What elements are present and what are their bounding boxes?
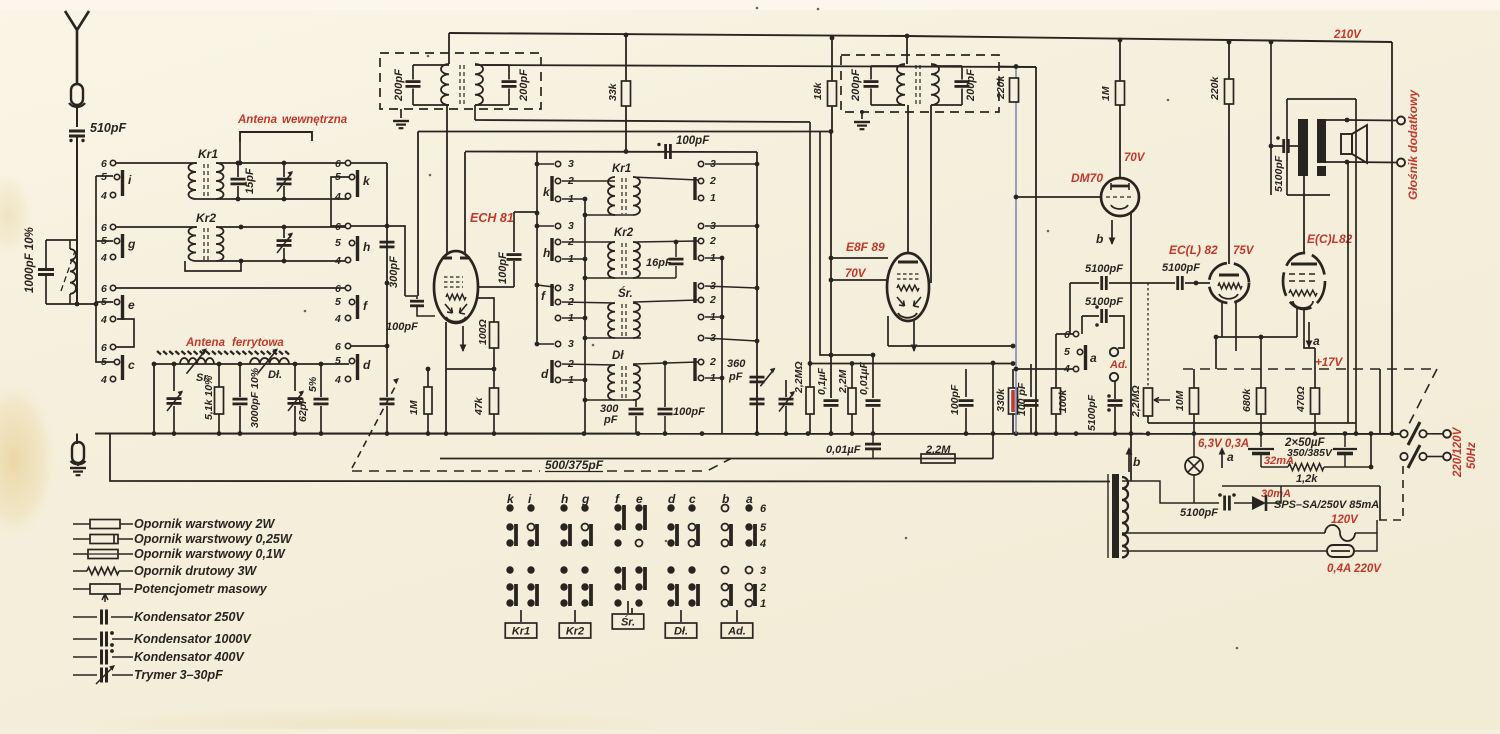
svg-text:1,2k: 1,2k: [1296, 473, 1318, 485]
svg-text:4: 4: [100, 252, 107, 264]
svg-text:Śr.: Śr.: [621, 616, 635, 629]
svg-text:15pF: 15pF: [244, 168, 256, 194]
svg-text:2: 2: [759, 582, 766, 594]
svg-text:Kondensator 250V: Kondensator 250V: [134, 610, 245, 624]
svg-text:100Ω: 100Ω: [477, 319, 489, 345]
svg-text:Śr.: Śr.: [618, 287, 633, 300]
svg-text:3: 3: [568, 220, 574, 232]
svg-text:5: 5: [101, 171, 107, 183]
svg-text:Trymer 3–30pF: Trymer 3–30pF: [134, 668, 223, 682]
svg-text:70V: 70V: [845, 268, 867, 280]
svg-text:h: h: [561, 492, 568, 506]
svg-text:Antena: Antena: [185, 337, 226, 349]
svg-text:5100pF: 5100pF: [1162, 262, 1200, 274]
svg-text:4: 4: [334, 191, 341, 203]
svg-text:SPS–SA/250V 85mA: SPS–SA/250V 85mA: [1274, 499, 1379, 511]
svg-text:b: b: [1133, 455, 1140, 469]
svg-text:100pF: 100pF: [949, 384, 961, 415]
svg-text:1M: 1M: [408, 400, 420, 415]
svg-text:g: g: [581, 492, 590, 506]
svg-text:Opornik warstwowy 2W: Opornik warstwowy 2W: [134, 517, 276, 531]
svg-text:ferrytowa: ferrytowa: [232, 337, 284, 349]
svg-text:Opornik warstwowy 0,1W: Opornik warstwowy 0,1W: [134, 547, 286, 561]
svg-text:4: 4: [334, 255, 341, 267]
svg-text:2: 2: [709, 356, 716, 368]
svg-text:75V: 75V: [1233, 245, 1255, 257]
svg-text:Antena: Antena: [237, 114, 278, 126]
svg-text:0,1µF: 0,1µF: [816, 367, 828, 395]
svg-text:2,2MΩ: 2,2MΩ: [1130, 385, 1142, 418]
svg-text:1000pF 10%: 1000pF 10%: [24, 227, 36, 293]
svg-text:4: 4: [759, 538, 766, 550]
svg-text:210V: 210V: [1333, 29, 1362, 41]
svg-text:E(C)L82: E(C)L82: [1307, 232, 1353, 246]
svg-text:220k: 220k: [1209, 75, 1221, 101]
svg-text:ECH 81: ECH 81: [470, 211, 514, 225]
svg-text:6: 6: [101, 342, 107, 354]
svg-text:1M: 1M: [1100, 86, 1112, 101]
svg-text:4: 4: [334, 313, 341, 325]
svg-text:100 pF: 100 pF: [1016, 382, 1028, 416]
svg-text:0,01µF: 0,01µF: [858, 362, 870, 395]
svg-text:a: a: [1313, 334, 1320, 348]
svg-text:+17V: +17V: [1315, 357, 1344, 369]
svg-text:4: 4: [334, 374, 341, 386]
svg-text:6: 6: [335, 221, 341, 233]
svg-text:h: h: [363, 240, 370, 254]
svg-text:16pF: 16pF: [646, 257, 672, 269]
svg-text:680k: 680k: [1241, 387, 1253, 412]
svg-text:3: 3: [568, 338, 574, 350]
svg-text:3: 3: [568, 158, 574, 170]
svg-text:3: 3: [568, 282, 574, 294]
svg-text:33k: 33k: [607, 82, 619, 101]
svg-text:4: 4: [100, 190, 107, 202]
svg-text:3: 3: [760, 565, 766, 577]
svg-text:EC(L) 82: EC(L) 82: [1169, 243, 1218, 257]
svg-text:5%: 5%: [307, 376, 319, 392]
svg-text:50Hz: 50Hz: [1466, 442, 1478, 469]
svg-text:Kr1: Kr1: [512, 626, 530, 638]
svg-text:200pF: 200pF: [518, 69, 530, 102]
svg-text:wewnętrzna: wewnętrzna: [282, 114, 348, 126]
svg-text:b: b: [1096, 232, 1103, 246]
svg-text:2: 2: [709, 175, 716, 187]
svg-text:Ad.: Ad.: [727, 626, 746, 638]
svg-text:Kr1: Kr1: [198, 147, 218, 161]
svg-text:5: 5: [335, 296, 341, 308]
svg-text:6: 6: [335, 283, 341, 295]
svg-text:470Ω: 470Ω: [1295, 386, 1307, 413]
svg-text:220/120V: 220/120V: [1452, 426, 1464, 478]
svg-text:300pF: 300pF: [388, 256, 400, 288]
svg-text:6: 6: [101, 283, 107, 295]
svg-text:e: e: [636, 492, 643, 506]
svg-text:5: 5: [1064, 346, 1070, 358]
svg-text:5100pF: 5100pF: [1085, 296, 1123, 308]
svg-text:62pF: 62pF: [297, 397, 309, 422]
svg-text:Ad.: Ad.: [1109, 359, 1128, 371]
svg-text:pF: pF: [603, 414, 618, 426]
svg-text:6: 6: [1064, 329, 1070, 341]
svg-text:200pF: 200pF: [850, 69, 862, 102]
svg-text:6: 6: [335, 341, 341, 353]
svg-text:Potencjometr masowy: Potencjometr masowy: [134, 582, 268, 596]
svg-text:d: d: [668, 492, 676, 506]
svg-text:Kondensator 1000V: Kondensator 1000V: [134, 632, 252, 646]
svg-text:2,2MΩ: 2,2MΩ: [793, 361, 805, 394]
svg-text:pF: pF: [728, 371, 743, 383]
svg-text:330k: 330k: [995, 387, 1007, 412]
svg-text:4: 4: [1063, 363, 1070, 375]
svg-text:4: 4: [100, 374, 107, 386]
svg-text:5100pF: 5100pF: [1273, 155, 1285, 192]
svg-text:c: c: [689, 492, 696, 506]
svg-text:100k: 100k: [1057, 388, 1069, 413]
svg-text:5: 5: [335, 237, 341, 249]
svg-text:5100pF: 5100pF: [1086, 394, 1098, 431]
svg-text:6: 6: [101, 158, 107, 170]
svg-text:5100pF: 5100pF: [1180, 507, 1218, 519]
svg-text:6: 6: [335, 158, 341, 170]
svg-text:18k: 18k: [812, 81, 824, 100]
svg-text:Kr2: Kr2: [566, 626, 584, 638]
svg-text:1: 1: [710, 192, 716, 204]
svg-text:g: g: [127, 237, 136, 251]
svg-text:360: 360: [727, 358, 746, 370]
svg-text:100pF: 100pF: [676, 135, 710, 147]
svg-text:a: a: [746, 492, 753, 506]
svg-text:6: 6: [101, 222, 107, 234]
svg-text:c: c: [128, 358, 135, 372]
svg-text:0,01µF: 0,01µF: [826, 444, 861, 456]
svg-text:100pF: 100pF: [497, 252, 509, 284]
svg-text:500/375pF: 500/375pF: [545, 458, 604, 472]
svg-text:Głośnik dodatkowy: Głośnik dodatkowy: [1406, 89, 1420, 200]
svg-text:Kr2: Kr2: [614, 227, 634, 239]
svg-text:Kr1: Kr1: [612, 163, 631, 175]
svg-text:2: 2: [709, 235, 716, 247]
svg-text:4: 4: [100, 314, 107, 326]
svg-text:E8F 89: E8F 89: [846, 240, 885, 254]
svg-text:d: d: [363, 358, 371, 372]
svg-text:10M: 10M: [1174, 390, 1186, 411]
svg-text:5100pF: 5100pF: [1085, 263, 1123, 275]
svg-text:70V: 70V: [1124, 152, 1146, 164]
svg-text:510pF: 510pF: [90, 121, 126, 135]
svg-text:d: d: [541, 367, 549, 381]
svg-text:0,4A 220V: 0,4A 220V: [1327, 563, 1382, 575]
svg-text:200pF: 200pF: [393, 69, 405, 102]
svg-text:100pF: 100pF: [386, 321, 418, 333]
svg-text:5: 5: [335, 355, 341, 367]
svg-text:5,1k 10%: 5,1k 10%: [203, 375, 215, 420]
svg-text:6,3V 0,3A: 6,3V 0,3A: [1198, 438, 1249, 450]
svg-text:220k: 220k: [995, 74, 1007, 100]
svg-text:DM70: DM70: [1071, 171, 1103, 185]
svg-text:Dł.: Dł.: [674, 626, 688, 638]
svg-text:Kondensator 400V: Kondensator 400V: [134, 650, 245, 664]
svg-text:e: e: [128, 298, 135, 312]
svg-text:100pF: 100pF: [673, 406, 705, 418]
svg-text:2: 2: [709, 294, 716, 306]
svg-text:Kr2: Kr2: [196, 211, 216, 225]
svg-text:Dł: Dł: [612, 350, 624, 362]
svg-text:5: 5: [760, 522, 767, 534]
svg-text:3000pF 10%: 3000pF 10%: [249, 367, 261, 428]
svg-text:h: h: [543, 246, 550, 260]
svg-text:1: 1: [760, 598, 766, 610]
svg-text:Opornik drutowy 3W: Opornik drutowy 3W: [134, 564, 257, 578]
svg-text:a: a: [1227, 450, 1234, 464]
svg-text:Opornik warstwowy 0,25W: Opornik warstwowy 0,25W: [134, 532, 293, 546]
svg-text:47k: 47k: [473, 396, 485, 416]
svg-text:120V: 120V: [1331, 514, 1359, 526]
svg-text:6: 6: [760, 503, 767, 515]
svg-text:Dł.: Dł.: [268, 369, 282, 381]
svg-text:a: a: [1090, 351, 1097, 365]
